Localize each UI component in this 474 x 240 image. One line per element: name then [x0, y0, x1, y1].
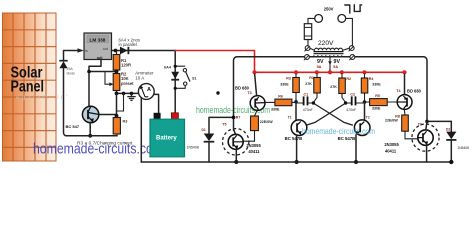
svg-text:R1: R1	[309, 76, 314, 80]
svg-text:in: in	[85, 49, 88, 53]
node red junctions	[252, 70, 406, 74]
transistor T6 2N3055	[384, 121, 439, 162]
svg-text:330E: 330E	[372, 82, 381, 86]
svg-text:250V: 250V	[324, 6, 334, 11]
wire battery red post up / 6A4 branch vertical	[174, 51, 176, 114]
diode D2 1N5408	[446, 121, 469, 162]
svg-text:5A: 5A	[317, 65, 322, 69]
wire R2 wiper tap	[105, 72, 110, 85]
svg-text:R3: R3	[286, 77, 291, 81]
svg-text:6A4: 6A4	[164, 65, 172, 69]
transformer TR1 220V 9-0-9V	[304, 40, 355, 69]
resistor R7 22E/6W	[236, 110, 273, 141]
svg-text:1N5408: 1N5408	[187, 146, 199, 150]
regulator U1 LM338	[84, 33, 112, 60]
node stray dot	[216, 91, 219, 94]
svg-text:40411: 40411	[248, 149, 260, 154]
resistor R5 330E (T4 base)	[365, 94, 398, 111]
resistor R2 27K	[330, 74, 351, 103]
diode D1 1N5408	[187, 128, 215, 162]
wire ammeter to battery + post	[154, 94, 159, 113]
wire LM338 out line	[112, 50, 176, 52]
svg-text:2N3055: 2N3055	[246, 143, 261, 148]
svg-text:LM 338: LM 338	[90, 38, 106, 43]
svg-text:5A: 5A	[333, 65, 338, 69]
fuse F1	[304, 18, 314, 45]
wire positive red rail	[175, 51, 404, 73]
transistor T1 BC547B	[285, 115, 307, 164]
svg-text:10 A: 10 A	[135, 76, 144, 81]
resistor R3 330E	[280, 74, 299, 100]
svg-text:330E: 330E	[271, 108, 280, 112]
svg-text:C1: C1	[304, 92, 309, 96]
svg-text:Battery: Battery	[156, 136, 177, 142]
svg-text:40411: 40411	[385, 149, 397, 154]
svg-text:BC 547B: BC 547B	[338, 136, 356, 141]
resistor R6 330E (T3 base)	[265, 94, 296, 111]
svg-text:T3: T3	[247, 91, 251, 95]
resistor R1 27K	[305, 74, 320, 103]
wire bottom negative return	[67, 135, 118, 137]
wire BC547 base to R3 top node	[99, 114, 117, 116]
svg-text:22E/6W: 22E/6W	[260, 120, 273, 124]
svg-text:BC 547: BC 547	[66, 124, 80, 129]
resistor R1 120R	[113, 51, 131, 72]
resistor R4 330E	[361, 74, 381, 102]
svg-text:egatam .in': egatam .in'	[16, 94, 70, 101]
svg-text:D1: D1	[202, 128, 206, 132]
transistor T2 BC547B	[338, 115, 370, 164]
diode 6A4 x 2nos in parallel	[119, 38, 141, 55]
wire solar+ to LM338 in (with arrow)	[64, 51, 79, 61]
diode 6A4 (battery branch)	[164, 65, 179, 79]
svg-text:R7: R7	[236, 116, 241, 120]
wire adj node horizontal	[89, 71, 117, 73]
svg-text:R2: R2	[346, 77, 351, 81]
svg-text:2N3055: 2N3055	[384, 142, 399, 147]
svg-text:1N5408: 1N5408	[457, 146, 469, 150]
mains plug prongs	[344, 4, 362, 13]
svg-text:27K: 27K	[305, 82, 312, 86]
svg-text:220V: 220V	[318, 40, 334, 47]
svg-text:A: A	[147, 87, 151, 93]
resistor R3 sense	[113, 116, 127, 136]
wire ammeter down to ground rail	[140, 98, 142, 162]
ground symbol	[127, 93, 135, 100]
svg-text:preset: preset	[121, 81, 134, 86]
transistor T4 BD680	[396, 74, 421, 109]
battery 12V	[150, 113, 185, 157]
svg-text:470nF: 470nF	[303, 108, 313, 112]
svg-text:R5: R5	[375, 94, 380, 98]
resistor R8 22E/6W	[385, 109, 418, 139]
svg-text:T2: T2	[366, 115, 370, 119]
node out junction	[114, 49, 118, 53]
wire ground rail	[141, 161, 451, 163]
wire T6 collector horizontal	[427, 120, 451, 122]
wire loop to R3 top	[117, 93, 124, 111]
wire R2 bottom to ammeter	[117, 92, 139, 94]
svg-text:T6: T6	[418, 122, 422, 126]
svg-text:120R: 120R	[121, 63, 131, 68]
wire T1 collector	[295, 100, 297, 120]
svg-text:T1: T1	[288, 115, 292, 119]
svg-text:330E: 330E	[280, 83, 289, 87]
svg-text:R3: R3	[123, 119, 128, 123]
wire solar negative vertical	[64, 68, 67, 136]
svg-text:BD 680: BD 680	[407, 88, 422, 93]
ammeter M1 10A	[135, 70, 154, 99]
svg-text:T5: T5	[222, 123, 226, 127]
svg-text:diode: diode	[67, 71, 76, 75]
solar panel PV module	[3, 13, 57, 161]
wire BC547 emitter down	[89, 122, 91, 136]
svg-text:S1: S1	[192, 77, 197, 81]
wire cross coupling diagonals	[313, 103, 353, 125]
mains socket terminals 250V	[315, 6, 353, 45]
svg-text:D2: D2	[446, 127, 450, 131]
svg-text:C2: C2	[350, 92, 355, 96]
svg-text:Ammeter: Ammeter	[135, 70, 154, 75]
svg-text:22E/6W: 22E/6W	[385, 119, 398, 123]
diode 25A (solar line)	[59, 61, 75, 76]
wire T2 collector	[364, 102, 366, 121]
capacitor C1 470nF	[296, 92, 313, 112]
preset R2 10K	[113, 71, 134, 93]
wire centre tap	[329, 58, 331, 71]
svg-text:R3 = 0.7/Charging current: R3 = 0.7/Charging current	[77, 141, 133, 147]
transistor BC 547 (current limiter)	[66, 106, 99, 129]
wire 1N5408 left branch	[209, 117, 234, 133]
wire transformer secondary rail to output collectors	[234, 57, 428, 130]
svg-text:R6: R6	[278, 94, 283, 98]
svg-text:out: out	[103, 47, 108, 51]
switch S1	[174, 65, 197, 90]
svg-text:R4: R4	[369, 77, 374, 81]
wire adj to node	[89, 60, 101, 107]
svg-text:470nF: 470nF	[346, 108, 356, 112]
svg-text:27K: 27K	[330, 85, 337, 89]
wire R2 bottom down to R3	[116, 93, 118, 117]
transistor T3 BD680	[235, 74, 265, 110]
svg-text:BD 680: BD 680	[235, 86, 250, 91]
svg-text:homemade-circuits.com: homemade-circuits.com	[302, 126, 375, 136]
capacitor C2 470nF	[346, 92, 365, 112]
transistor T5 2N3055	[222, 123, 261, 164]
svg-text:BC 547B: BC 547B	[285, 136, 303, 141]
svg-text:in parallel: in parallel	[119, 42, 137, 47]
svg-text:330E: 330E	[372, 106, 381, 110]
svg-text:T4: T4	[396, 89, 400, 93]
